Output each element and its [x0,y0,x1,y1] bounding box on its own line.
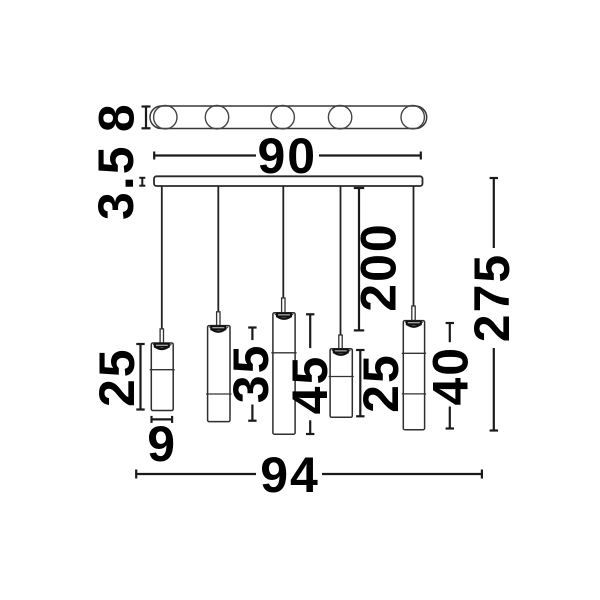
top-view lamp circle 2 [205,106,228,129]
dim 40 line [446,323,454,429]
svg-text:94: 94 [260,447,320,503]
cord lamp 3 [282,186,284,298]
shade lamp 2 [206,326,231,422]
dim 35 line [248,328,256,421]
svg-text:25: 25 [353,353,409,413]
svg-text:3.5: 3.5 [88,144,144,220]
svg-text:40: 40 [423,346,479,406]
shade lamp 1 [150,343,175,411]
svg-text:35: 35 [223,344,279,404]
top-view lamp circle 1 [154,106,177,129]
canopy bar (side view) [154,176,423,186]
shade lamp 3 [271,313,296,435]
dim 25 lamp4 line [356,350,364,416]
dim 3.5 marker [139,178,145,186]
svg-text:25: 25 [89,347,145,407]
svg-text:200: 200 [350,222,406,311]
svg-text:9: 9 [147,416,177,472]
svg-text:45: 45 [282,355,338,415]
shade lamp 5 [402,321,426,430]
socket stem lamp 5 [412,306,415,321]
socket stem lamp 3 [282,298,285,313]
socket stem lamp 1 [160,329,163,343]
top-view lamp circle 3 [271,106,294,129]
dim 200 line [354,188,364,330]
svg-text:8: 8 [89,102,145,132]
dim 275 line [490,178,498,431]
socket stem lamp 4 [339,335,342,349]
top-view bar (stadium outline) [150,106,427,129]
dim 8 marker line [142,107,151,129]
top-view lamp circle 4 [328,106,351,129]
dim 25 lamp1 line [136,344,144,410]
socket stem lamp 2 [217,312,220,326]
cord lamp 1 [161,186,163,329]
dim 94 line [136,470,482,479]
dim 9 line [152,416,173,423]
cord lamp 5 [413,186,415,306]
dim 45 line [306,314,314,434]
svg-text:275: 275 [464,253,520,342]
cord lamp 4 [340,186,342,335]
cord lamp 2 [217,186,219,312]
shade lamp 4 [329,349,354,418]
top-view lamp circle 5 [401,106,424,129]
dim 90 line [154,152,421,160]
